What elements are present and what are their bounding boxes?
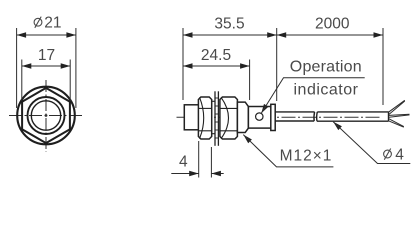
cable segment 1 [275,112,314,121]
indicator leader line [261,78,365,114]
dimension 2000 [277,15,383,105]
dimension ø21 [17,15,76,108]
centerline horizontal (front view) [9,115,83,117]
svg-text:M12×1: M12×1 [280,148,333,165]
label ø4 [333,122,410,164]
hex nut outline (front) [21,87,72,144]
35.5 extension line left [182,28,184,100]
toothed washer [215,91,218,146]
centerline axis (side view) [177,116,382,118]
17 arrow left [22,63,32,68]
35.5 arrow left [183,32,193,37]
4 arrow pointing left [211,171,221,176]
inner thread circle outer [28,97,65,134]
cable segment 2 (after break) [317,112,389,121]
ø21 extension line right [75,28,77,108]
2000 arrow left [277,32,287,37]
ø21 arrow left [17,32,27,37]
hex nut 2 (side) [220,97,238,139]
35.5 dimension line [183,34,277,36]
ø21 extension line left [16,28,18,108]
svg-text:2000: 2000 [315,15,350,32]
LED operation indicator [256,113,263,120]
4 dimension line right segment [211,173,223,175]
centerline vertical (front view) [45,80,47,152]
svg-text:indicator: indicator [294,82,359,99]
ø21 diameter symbol [34,18,42,26]
2000 dimension line [277,34,383,36]
svg-text:4: 4 [395,147,404,164]
35.5 arrow right [267,32,277,37]
4 extension line left [198,141,200,178]
17 extension line left [21,60,23,102]
2000 arrow right [374,32,384,37]
24.5 arrow left [183,63,193,68]
svg-text:35.5: 35.5 [214,15,244,32]
svg-text:4: 4 [179,154,188,171]
inner thread circle inner [31,101,60,130]
svg-text:21: 21 [44,15,61,32]
ø21 arrow right [66,32,76,37]
svg-text:Operation: Operation [290,59,362,76]
end cap flange [271,104,275,130]
rear housing section [248,107,271,129]
indicator leader arrow [261,104,268,114]
center dot [45,114,48,117]
hex nut 1 (side) [198,97,211,139]
sensing barrel [184,105,199,130]
M12x1 leader line [243,135,333,167]
front outer circle (body ø21) [17,87,75,145]
35.5/2000 shared extension line [276,28,278,101]
label Operation indicator [261,59,365,114]
24.5 dimension line [183,65,250,67]
dimension 24.5 [183,47,250,100]
main body housing [237,102,248,132]
frayed wire ends [389,100,410,127]
dimension 4 [171,141,223,178]
4 arrow pointing right [189,171,199,176]
ø4 diameter symbol [384,150,392,158]
17 extension line right [69,60,71,102]
svg-text:17: 17 [38,47,55,64]
label M12x1 [243,135,333,167]
4 dimension line left segment [171,173,198,175]
ø21 dimension line [17,34,76,36]
24.5 arrow right [240,63,250,68]
M12x1 leader arrow [243,135,252,144]
4 extension line right [210,147,212,178]
ø4 leader line [333,122,410,164]
17 arrow right [61,63,70,68]
24.5 extension line right [249,60,251,101]
dimension 35.5 [183,15,277,101]
dimension 17 [22,47,70,101]
ø4 leader arrow [333,122,342,130]
2000 extension line right [382,28,384,105]
thread stub between nut and washer [212,101,215,133]
17 dimension line [22,65,70,67]
svg-text:24.5: 24.5 [201,47,231,64]
